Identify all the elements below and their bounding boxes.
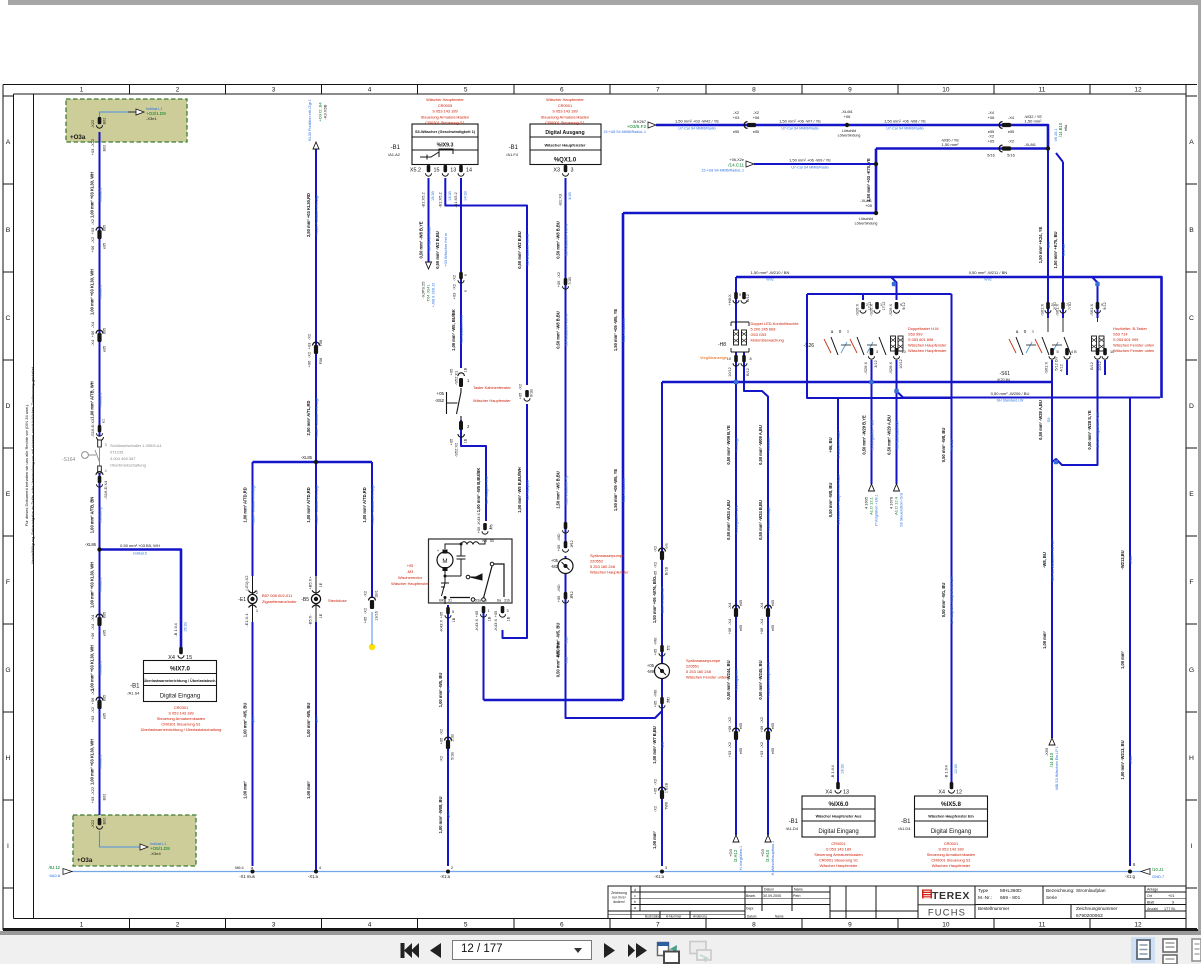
svg-text:5 253 160 248: 5 253 160 248: [686, 669, 711, 674]
svg-text:13/1B: 13/1B: [448, 191, 452, 201]
svg-text:0: 0: [839, 329, 842, 334]
svg-text:1,00 mm² +03 KL30, WH: 1,00 mm² +03 KL30, WH: [89, 645, 94, 691]
svg-text:5: 5: [464, 87, 468, 94]
connector -X22 in +O3a top: [98, 117, 102, 124]
svg-text:+05: +05: [407, 563, 414, 568]
svg-text:-X2: -X2: [439, 755, 444, 762]
svg-text:1E: 1E: [319, 613, 323, 618]
cigarette lighter -E1: [250, 576, 255, 622]
svg-text:12/1B: 12/1B: [954, 764, 958, 774]
svg-text:-X22: -X22: [90, 138, 95, 147]
svg-text:1,50 mm² +05 -W5, YE: 1,50 mm² +05 -W5, YE: [613, 309, 618, 351]
toolbar prev button: [430, 943, 441, 958]
svg-text:1,50 mm²: 1,50 mm²: [1025, 119, 1043, 124]
svg-text:-X2: -X2: [90, 236, 95, 243]
svg-text:B/12: B/12: [746, 368, 750, 376]
svg-text:Indikat.1: Indikat.1: [97, 755, 102, 770]
svg-text:+05: +05: [988, 139, 996, 144]
toolbar last-page button: [628, 944, 635, 957]
svg-text:H-Vorglühen GN: H-Vorglühen GN: [734, 506, 739, 535]
svg-text:Spritzwasserpumpe: Spritzwasserpumpe: [590, 553, 624, 558]
svg-text:-S61:X: -S61:X: [1044, 362, 1049, 375]
svg-text:-X2: -X2: [653, 545, 658, 552]
arrow /14.C11: [746, 161, 754, 167]
svg-text:CR0001: CR0001: [944, 841, 958, 846]
svg-text:KL30 Funktion erh./Zgr: KL30 Funktion erh./Zgr: [314, 397, 319, 437]
svg-text:KL30 Funktion erh./Zgr: KL30 Funktion erh./Zgr: [250, 484, 255, 524]
svg-text:-M2:: -M2:: [556, 533, 561, 541]
svg-text:-X2: -X2: [988, 134, 995, 139]
svg-text:Indikat.5: Indikat.5: [133, 552, 147, 556]
svg-text:Hochleiter, B-Taster: Hochleiter, B-Taster: [1113, 326, 1148, 331]
svg-text:+06: +06: [307, 360, 312, 368]
svg-text:0,50 mm² -W28 S,YE: 0,50 mm² -W28 S,YE: [1087, 410, 1092, 449]
svg-text:Wischermotor: Wischermotor: [398, 575, 423, 580]
terminal -S16-E:X4: [98, 466, 102, 473]
svg-text:1,00 mm²: 1,00 mm²: [1120, 650, 1125, 668]
svg-text:-X4: -X4: [727, 602, 732, 609]
svg-text:Digital Ausgang: Digital Ausgang: [545, 130, 584, 136]
svg-text:Datum: Datum: [747, 915, 757, 919]
toolbar page-view icons right: [1131, 937, 1155, 963]
svg-text:+05: +05: [556, 544, 561, 552]
svg-text:E: E: [6, 491, 11, 498]
svg-text:5/16: 5/16: [1007, 154, 1014, 158]
svg-text:+05: +05: [474, 610, 479, 618]
svg-text:-B1:X5.2: -B1:X5.2: [437, 191, 442, 207]
svg-text:Digital Eingang: Digital Eingang: [931, 829, 971, 835]
svg-text:S To Vorglühen +U8: S To Vorglühen +U8: [1095, 413, 1100, 448]
svg-text:-X4: -X4: [759, 602, 764, 609]
svg-text:1,00 mm² -W5, BU: 1,00 mm² -W5, BU: [438, 673, 443, 708]
svg-text:-X4: -X4: [988, 110, 995, 115]
svg-text:S3 Häupten: S3 Häupten: [525, 480, 530, 501]
svg-text:9: 9: [848, 922, 852, 929]
motor top pin connector: [483, 523, 487, 530]
svg-text:-X2: -X2: [307, 333, 312, 340]
svg-text:+05: +05: [653, 787, 658, 795]
svg-text:A: A: [6, 139, 11, 146]
svg-text:0,50 mm² -W8, BU: 0,50 mm² -W8, BU: [828, 483, 833, 518]
svg-text:12: 12: [1134, 922, 1142, 929]
svg-text:-X3e1: -X3e1: [146, 116, 157, 121]
svg-text:-X22: -X22: [90, 786, 95, 795]
title block: [608, 886, 1186, 919]
svg-text:-K3.X6B: -K3.X6B: [323, 104, 328, 119]
svg-text:-B1: -B1: [509, 145, 519, 151]
svg-text:e6a: e6a: [1064, 124, 1068, 131]
svg-text:+06: +06: [90, 330, 95, 338]
svg-text:+03: +03: [90, 227, 95, 235]
svg-text:0,50 mm² -W244, BU: 0,50 mm² -W244, BU: [726, 660, 731, 699]
svg-text:-B 1:X4: -B 1:X4: [830, 765, 835, 779]
svg-text:S3-Wäscher (Geschwindigkeit 1): S3-Wäscher (Geschwindigkeit 1): [415, 129, 476, 134]
svg-text:MH: MH: [250, 717, 255, 723]
svg-text:13: 13: [843, 790, 849, 796]
svg-text:30.09.2005: 30.09.2005: [763, 894, 781, 898]
svg-text:1,50 mm² +06 -W8 / YE: 1,50 mm² +06 -W8 / YE: [884, 119, 926, 124]
svg-text:0,50 mm² -W8 B,YE: 0,50 mm² -W8 B,YE: [418, 221, 423, 258]
svg-text:B02: B02: [103, 794, 107, 801]
svg-text:-XJPS:25: -XJPS:25: [421, 281, 426, 299]
svg-text:1 B1B: 1 B1B: [665, 782, 669, 793]
svg-text:0,50 mm² -W24 B,BU: 0,50 mm² -W24 B,BU: [758, 500, 763, 540]
svg-text:nur im E²: nur im E²: [612, 896, 627, 900]
rail arrow left: [63, 869, 72, 875]
svg-text:3: 3: [272, 87, 276, 94]
svg-text:+03 Wäscher frei w: +03 Wäscher frei w: [443, 233, 448, 267]
svg-text:S9: S9: [1046, 418, 1051, 423]
svg-text:S3 Wäscher Vor w: S3 Wäscher Vor w: [563, 314, 568, 346]
svg-text:1: 1: [80, 87, 84, 94]
svg-text:+O3a: +O3a: [77, 857, 93, 864]
svg-text:CR0301 Steuerung S1: CR0301 Steuerung S1: [161, 722, 200, 727]
svg-text:6A0.8: 6A0.8: [50, 873, 61, 878]
svg-text:+03: +03: [307, 342, 312, 350]
svg-text:1,00 mm²: 1,00 mm²: [306, 780, 311, 798]
svg-text:Blatt: Blatt: [1147, 901, 1154, 905]
svg-text:13/1B: 13/1B: [841, 764, 845, 774]
svg-text:1,00 mm²: 1,00 mm²: [652, 830, 657, 848]
svg-text:+06: +06: [727, 725, 732, 733]
svg-text:-B5: -B5: [301, 597, 309, 603]
PLC arrows x736/x768: [733, 835, 739, 842]
svg-text:-X2: -X2: [759, 741, 764, 748]
svg-text:-S61: -S61: [999, 371, 1010, 377]
svg-text:+06: +06: [90, 632, 95, 640]
svg-text:6/1B: 6/1B: [530, 389, 534, 397]
svg-text:-X2: -X2: [733, 110, 740, 115]
svg-text:+05: +05: [476, 526, 481, 534]
svg-text:8: 8: [752, 87, 756, 94]
svg-text:-X2: -X2: [363, 590, 368, 597]
svg-text:A: A: [1189, 139, 1194, 146]
svg-text:53a: 53a: [475, 599, 481, 603]
svg-text:H-Wäschhaupthau.1: H-Wäschhaupthau.1: [771, 841, 775, 876]
svg-text:Wäschen Fenster unten: Wäschen Fenster unten: [1113, 343, 1154, 348]
svg-text:-S164: -S164: [62, 457, 76, 463]
svg-text:-S52:X2: -S52:X2: [454, 442, 459, 457]
svg-text:1,50 mm² -W210 / BN: 1,50 mm² -W210 / BN: [751, 270, 790, 275]
svg-text:G: G: [5, 667, 10, 674]
svg-text:10: 10: [902, 350, 906, 354]
svg-text:1,50 mm²: 1,50 mm²: [942, 142, 960, 147]
svg-text:1,50 mm² +06 -W9 / YE: 1,50 mm² +06 -W9 / YE: [789, 158, 831, 163]
svg-text:Steuerung Armaturenkasten: Steuerung Armaturenkasten: [541, 114, 589, 119]
svg-text:0,50 mm² -W09 B,YE: 0,50 mm² -W09 B,YE: [726, 425, 731, 465]
svg-text:MHL360D: MHL360D: [1000, 888, 1022, 894]
svg-text:A1.D 12.1: A1.D 12.1: [869, 496, 874, 515]
svg-text:I: I: [1191, 843, 1193, 850]
svg-text:+05: +05: [437, 391, 445, 396]
svg-text:-X2: -X2: [1008, 139, 1015, 144]
svg-text:6790200063: 6790200063: [1076, 913, 1103, 919]
svg-text:3/1B: 3/1B: [568, 192, 572, 200]
svg-text:/8J.12: /8J.12: [49, 865, 61, 870]
svg-text:1,50 mm² +05 -W76, B/O: 1,50 mm² +05 -W76, B/O: [652, 576, 657, 623]
svg-text:Für dieses Dokument behalten w: Für dieses Dokument behalten wir uns all…: [24, 404, 29, 527]
svg-text:Indikat.1: Indikat.1: [97, 393, 102, 408]
svg-text:CR0301 Steuerung S1: CR0301 Steuerung S1: [425, 120, 464, 125]
svg-text:7: 7: [656, 87, 660, 94]
washer pump -M2: [558, 559, 573, 574]
svg-text:1,00 mm² A/TD,RD: 1,00 mm² A/TD,RD: [242, 487, 247, 522]
svg-text:0,50 mm² -W1, BU: 0,50 mm² -W1, BU: [941, 583, 946, 618]
svg-text:12: 12: [956, 790, 962, 796]
svg-text:e: e: [464, 290, 468, 292]
svg-text:8: 8: [752, 922, 756, 929]
svg-text:1,00 mm² -W5 B,BU/BK: 1,00 mm² -W5 B,BU/BK: [476, 468, 481, 513]
svg-text:1/2: 1/2: [667, 645, 671, 650]
svg-text:0,50 mm² -W8 B,BU: 0,50 mm² -W8 B,BU: [555, 221, 560, 259]
svg-text:F08: F08: [319, 358, 323, 365]
svg-text:S13: S13: [563, 657, 568, 664]
svg-text:+03 Wäscher frei: +03 Wäscher frei: [459, 315, 464, 345]
svg-text:-S16-E:X3: -S16-E:X3: [90, 418, 95, 437]
svg-text:1,00 mm² A/TB, WH: 1,00 mm² A/TB, WH: [89, 381, 94, 418]
svg-text:E-Häupten Haupfenster Ein: E-Häupten Haupfenster Ein: [949, 576, 954, 624]
svg-text:1,50 mm² +06 -W7 / YE: 1,50 mm² +06 -W7 / YE: [779, 119, 821, 124]
svg-text:8: 8: [750, 357, 752, 361]
svg-text:+03 S3-W OG2: +03 S3-W OG2: [426, 227, 431, 254]
svg-text:+03: +03: [759, 750, 764, 758]
svg-text:Wäschen Fenster unten: Wäschen Fenster unten: [1113, 348, 1154, 353]
svg-text:S 053 143 189: S 053 143 189: [168, 711, 193, 716]
svg-text:X4: X4: [938, 790, 945, 796]
svg-text:(-E1):X2: (-E1):X2: [244, 575, 249, 591]
svg-text:-M2: -M2: [551, 564, 559, 569]
svg-text:-X2: -X2: [452, 283, 457, 290]
svg-text:31b: 31b: [504, 599, 510, 603]
svg-text:-W8, BU: -W8, BU: [1042, 552, 1047, 568]
svg-text:10: 10: [942, 87, 950, 94]
svg-text:-K43:X: -K43:X: [474, 619, 479, 632]
svg-text:+06: +06: [759, 627, 764, 635]
svg-text:Zeichnungsnummer: Zeichnungsnummer: [1076, 906, 1118, 911]
svg-text:-M9:: -M9:: [653, 637, 658, 645]
svg-text:T:64 JG41: T:64 JG41: [427, 284, 431, 301]
svg-text:+06: +06: [727, 627, 732, 635]
svg-text:1,00 mm² -W08, BU: 1,00 mm² -W08, BU: [438, 797, 443, 834]
svg-text:-X2: -X2: [452, 274, 457, 281]
svg-text:-S61:X: -S61:X: [1055, 304, 1060, 317]
svg-text:c: c: [634, 894, 636, 898]
svg-text:-X4: -X4: [1008, 115, 1015, 120]
svg-text:B/12: B/12: [1090, 362, 1094, 370]
svg-text:Indikat.1: Indikat.1: [97, 661, 102, 676]
svg-text:+06: +06: [988, 115, 996, 120]
svg-text:-B1:X3: -B1:X3: [558, 193, 563, 206]
svg-text:-W30 / YE: -W30 / YE: [941, 138, 959, 143]
svg-text:-B1: -B1: [130, 684, 140, 690]
svg-text:-X4: -X4: [90, 339, 95, 346]
svg-text:Steuerung Armaturenkasten: Steuerung Armaturenkasten: [157, 716, 205, 721]
arrow +O3/1.D9: [136, 109, 144, 115]
svg-text:15 +U8 S4 MMI6/RadioL.1: 15 +U8 S4 MMI6/RadioL.1: [604, 130, 646, 134]
svg-text:-X2: -X2: [439, 728, 444, 735]
svg-text:H-Vorglühen: H-Vorglühen: [734, 669, 739, 691]
svg-text:+06: +06: [759, 725, 764, 733]
svg-text:0,50 mm² -W2 B,BU: 0,50 mm² -W2 B,BU: [517, 231, 522, 269]
svg-text:+03: +03: [90, 715, 95, 723]
wire bottom rail 15/30: [72, 871, 1141, 873]
svg-text:Wäschen Haupfenster: Wäschen Haupfenster: [908, 348, 947, 353]
svg-text:A-Nummer: A-Nummer: [666, 915, 682, 919]
svg-text:1,00 mm² +03 KL30, WH: 1,00 mm² +03 KL30, WH: [89, 269, 94, 315]
svg-text:H-Vorgl: H-Vorgl: [734, 438, 739, 451]
svg-text:0,50 mm² -W24 A,BU: 0,50 mm² -W24 A,BU: [726, 500, 731, 540]
svg-text:1,00 mm²: 1,00 mm²: [242, 780, 247, 798]
svg-text:KL30 Funktion erh./Zgr: KL30 Funktion erh./Zgr: [370, 484, 375, 524]
svg-text:53: 53: [490, 539, 494, 543]
svg-text:Wäschen Haupfenster Ein: Wäschen Haupfenster Ein: [928, 815, 974, 819]
svg-text:1,50 mm² +K24, YE: 1,50 mm² +K24, YE: [1038, 227, 1043, 264]
svg-text:U7-Car S4 MMI6/Radio: U7-Car S4 MMI6/Radio: [678, 127, 715, 131]
svg-text:Zündung: Zündung: [97, 507, 102, 522]
svg-text:A1.D 12.4: A1.D 12.4: [894, 496, 899, 515]
svg-text:-X22: -X22: [90, 819, 95, 828]
svg-text:X3: X3: [553, 168, 560, 174]
svg-text:CR0001: CR0001: [831, 841, 845, 846]
svg-text:+01: +01: [1168, 894, 1174, 898]
svg-text:-B1: -B1: [901, 819, 911, 825]
svg-text:B02: B02: [103, 118, 107, 125]
svg-text:-X1:a: -X1:a: [654, 874, 665, 879]
svg-text:1T12: 1T12: [882, 302, 886, 311]
svg-text:-X2: -X2: [653, 778, 658, 785]
svg-text:Gepr.: Gepr.: [746, 907, 754, 911]
svg-text:CR0001: CR0001: [558, 103, 572, 108]
connector pair x662 below: [659, 787, 666, 790]
svg-text:2: 2: [176, 922, 180, 929]
svg-text:ändern!: ändern!: [613, 900, 625, 904]
svg-text:H: H: [1189, 755, 1194, 762]
svg-text:S 053 143 189: S 053 143 189: [938, 847, 963, 852]
washer pump -M9: [655, 664, 670, 679]
svg-text:CR0301: CR0301: [174, 705, 188, 710]
svg-text:-X3e4: -X3e4: [150, 851, 161, 856]
svg-text:1B: 1B: [464, 438, 468, 443]
svg-text:-W32 / YE: -W32 / YE: [1024, 114, 1042, 119]
svg-text:4 B: 4 B: [1071, 350, 1077, 354]
svg-text:+05: +05: [556, 280, 561, 288]
svg-text:MH: MH: [446, 687, 451, 693]
svg-text:/14.C11: /14.C11: [728, 163, 744, 168]
svg-text:14: 14: [466, 168, 472, 174]
svg-text:M6:1: M6:1: [235, 865, 245, 870]
svg-text:Steuerung Armaturenkasten: Steuerung Armaturenkasten: [927, 852, 975, 857]
svg-text:7/1B: 7/1B: [568, 277, 572, 285]
toolbar window icon with arrow: [658, 943, 669, 956]
svg-text:S53 999: S53 999: [908, 332, 923, 337]
connector pair on motor BK wire: [445, 737, 452, 740]
svg-text:6: 6: [560, 922, 564, 929]
svg-text:-X1 mus: -X1 mus: [239, 874, 255, 879]
svg-text:1,00 mm² A/TD,RD: 1,00 mm² A/TD,RD: [306, 487, 311, 522]
svg-text:e05: e05: [103, 630, 107, 636]
socket -B5: [314, 576, 319, 622]
svg-text:-K43:X: -K43:X: [476, 513, 481, 526]
svg-text:-S61:X: -S61:X: [1089, 304, 1094, 317]
svg-text:S 053 143 189: S 053 143 189: [432, 109, 457, 114]
svg-text:220552: 220552: [590, 559, 603, 564]
svg-text:/14.B10: /14.B10: [1049, 752, 1054, 767]
svg-text:/10.J1: /10.J1: [1152, 867, 1164, 872]
svg-text:+O3a: +O3a: [70, 134, 86, 141]
svg-text:-X4: -X4: [90, 321, 95, 328]
PLC box %IX7.0 Digital Eingang: [144, 661, 217, 702]
svg-text:SH Standard LW: SH Standard LW: [997, 399, 1024, 403]
svg-text:-X1:a: -X1:a: [308, 874, 319, 879]
svg-text:Wäscher Haupfenster Aus: Wäscher Haupfenster Aus: [816, 815, 862, 819]
svg-text:F: F: [6, 579, 10, 586]
svg-text:669 - 801: 669 - 801: [1000, 895, 1021, 901]
svg-text:13/16: 13/16: [375, 611, 379, 621]
svg-text:0,50 mm² -W245, BU: 0,50 mm² -W245, BU: [758, 660, 763, 699]
svg-text:I: I: [1032, 329, 1033, 334]
motor bottom pin connectors: [446, 607, 450, 614]
svg-text:e05: e05: [103, 225, 107, 231]
svg-text:a: a: [1016, 329, 1019, 334]
svg-text:S 053 143 189: S 053 143 189: [552, 109, 577, 114]
svg-text:Petri: Petri: [793, 894, 801, 898]
svg-text:9: 9: [739, 293, 741, 297]
svg-text:S13 Wäschen: S13 Wäschen: [621, 318, 626, 342]
svg-text:1,50 mm² +K75, BU: 1,50 mm² +K75, BU: [1053, 231, 1058, 268]
svg-text:W92: W92: [766, 278, 773, 282]
svg-text:Wäschen Haupfenster: Wäschen Haupfenster: [932, 863, 971, 868]
svg-text:F: F: [1189, 579, 1193, 586]
svg-text:14/1B: 14/1B: [464, 191, 468, 201]
svg-text:Digital Eingang: Digital Eingang: [818, 829, 858, 835]
svg-text:Indikat.1: Indikat.1: [97, 285, 102, 300]
svg-text:-X1:g: -X1:g: [1125, 874, 1136, 879]
svg-text:-M3: -M3: [407, 569, 414, 574]
svg-text:1/12: 1/12: [570, 540, 574, 547]
svg-text:-S26:X: -S26:X: [869, 304, 874, 317]
toolbar first-page button: [404, 943, 412, 958]
svg-text:Zigarettenanzünder: Zigarettenanzünder: [262, 599, 297, 604]
svg-text:Anzahl: Anzahl: [1147, 907, 1158, 911]
svg-text:Taster Kabinenfenster: Taster Kabinenfenster: [473, 385, 512, 390]
svg-text:Wäscher Haupfenster: Wäscher Haupfenster: [544, 143, 586, 148]
svg-text:4/6: 4/6: [490, 524, 494, 529]
svg-text:Überlastwarneinrichtung / Über: Überlastwarneinrichtung / Überlastabsch.: [144, 678, 217, 683]
svg-text:e1: e1: [102, 419, 106, 423]
svg-text:0,50 mm² -W206 / BU: 0,50 mm² -W206 / BU: [991, 391, 1030, 396]
svg-text:GND: GND: [1128, 755, 1133, 764]
box1 pin connectors: [427, 165, 431, 172]
svg-text:U7-Car S4 MMI6/Radio: U7-Car S4 MMI6/Radio: [781, 127, 818, 131]
svg-text:7/TD: 7/TD: [1068, 302, 1072, 310]
svg-text:S3 Wäscher Vor w: S3 Wäscher Vor w: [563, 224, 568, 256]
svg-text:Wäschen Haupfenster: Wäschen Haupfenster: [908, 343, 947, 348]
svg-text:Steuerung Armaturenkasten: Steuerung Armaturenkasten: [814, 852, 862, 857]
svg-text:+03: +03: [90, 796, 95, 804]
svg-text:+06: +06: [90, 697, 95, 705]
svg-text:-X2: -X2: [653, 561, 658, 568]
svg-text:S9 Steuerstrom Grd: S9 Steuerstrom Grd: [900, 493, 904, 527]
svg-text:3: 3: [507, 609, 509, 613]
svg-text:S Wäschen Haupfenster Aus: S Wäschen Haupfenster Aus: [836, 475, 841, 525]
svg-text:+05: +05: [653, 570, 658, 578]
TEREX FUCHS logo: [922, 890, 932, 899]
svg-text:0,50 mm² -W28 A,BU: 0,50 mm² -W28 A,BU: [1038, 400, 1043, 440]
junction dots: [99, 132, 101, 436]
svg-text:-S52: -S52: [435, 398, 445, 403]
svg-text:/A1.D4: /A1.D4: [898, 826, 911, 831]
svg-text:e05: e05: [739, 625, 743, 631]
